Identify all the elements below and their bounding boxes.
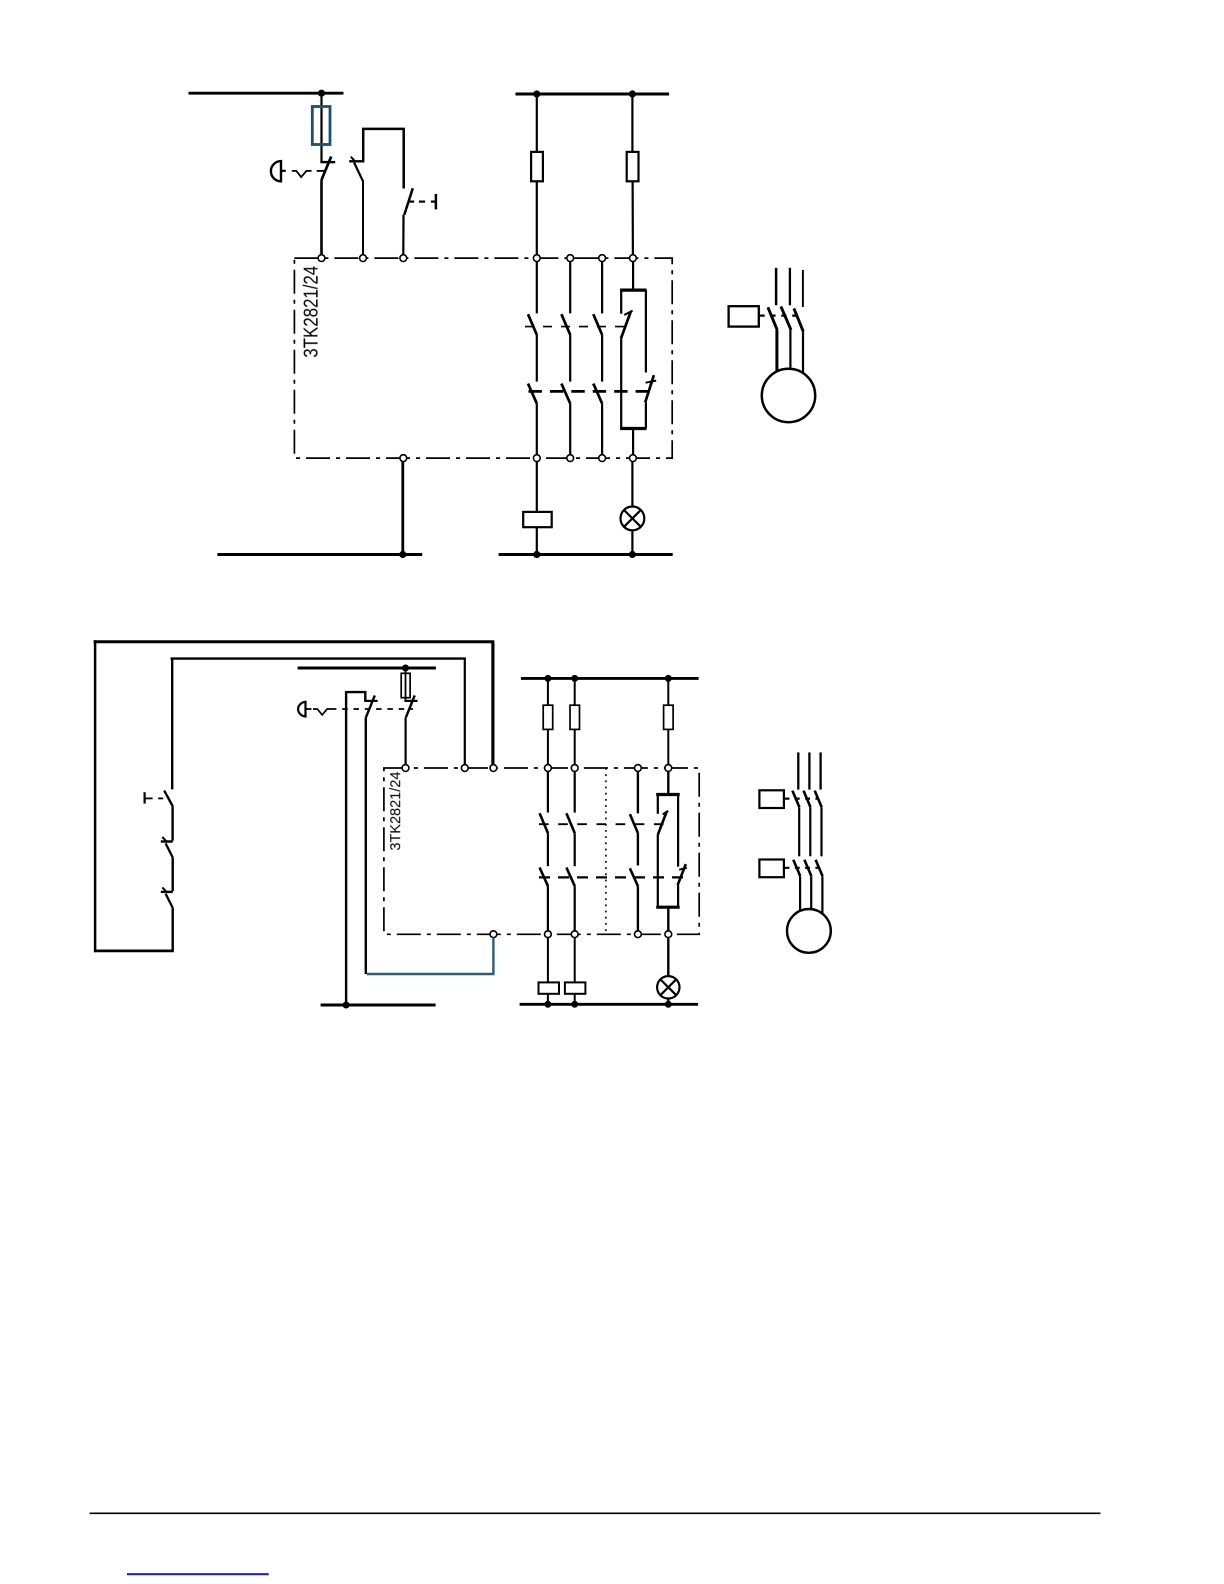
relay K2 lower tick: [679, 868, 687, 870]
switch S22 blade: [406, 695, 415, 717]
S3 actuator arm: [431, 201, 436, 203]
wire lamp H1 to rail: [631, 530, 633, 554]
contactor Q11 pole 2 blade: [804, 791, 811, 808]
outer loop wire top: [94, 640, 495, 643]
relay K2 upper tick: [663, 811, 669, 815]
inner loop wire right to terminal 23: [464, 659, 466, 765]
fuse F2: [531, 152, 543, 181]
contact 23-24-2 upper wire: [574, 771, 576, 812]
actuator latch squiggle: [292, 171, 312, 177]
DIAGRAM2: [94, 640, 831, 1008]
motor feeder 2 phase L3: [819, 752, 821, 789]
contactor Q1 linkage dashes: [760, 315, 798, 317]
chain switch S11 blade: [164, 791, 173, 807]
junction on rail at fuse F2: [533, 90, 540, 97]
S3 actuator dash crossing blade: [409, 201, 414, 203]
contact 13-14-2 mid wire: [547, 833, 549, 866]
ground rail right d2: [520, 1003, 699, 1006]
wire rail to fuse F14: [667, 678, 669, 705]
supply rail L+ (short): [298, 667, 436, 670]
lamp H1: [621, 507, 645, 531]
terminal 34-2: [635, 931, 642, 938]
terminal 13-2: [545, 765, 552, 772]
wire rail to fuse F3: [631, 94, 633, 152]
switch S12 blade: [166, 843, 173, 857]
outer loop wire bottom: [95, 950, 174, 953]
relay K bottom bar: [620, 427, 646, 430]
terminal 33: [599, 255, 606, 262]
S11 actuator dash: [158, 797, 163, 799]
junction Y3/N: [399, 551, 406, 558]
junction lamp H1 / rail: [629, 551, 636, 558]
inner loop wire top: [171, 657, 466, 659]
jumper wire over S2 to S3: [363, 129, 404, 189]
relay K left edge lower: [620, 338, 622, 428]
terminal 23: [567, 255, 574, 262]
contactor Q11 pole 3 blade: [815, 791, 822, 808]
contact 13-14-2 lower wire: [547, 886, 549, 931]
terminal Y3 top: [400, 255, 407, 262]
contact 13-14 upper wire: [536, 262, 538, 314]
relay K upper tick: [624, 311, 632, 315]
ground rail N (right): [499, 553, 673, 556]
fuse F14: [664, 705, 674, 729]
switch S13 tip tick: [162, 887, 166, 891]
relay K2 left edge upper: [657, 795, 659, 814]
contact 33-34 mid wire: [601, 335, 603, 382]
wire coil K2-2 to rail: [574, 994, 576, 1005]
relay K lower blade: [645, 375, 654, 402]
contact 33-34 blade: [593, 314, 602, 335]
wire Q1 pole2 to motor: [789, 330, 791, 369]
footer rule: [90, 1512, 1101, 1514]
supply rail top right d2: [521, 677, 699, 680]
relay K upper blade: [621, 312, 631, 339]
wire middle down-lead: [345, 691, 347, 1005]
relay K top bar: [620, 289, 646, 292]
motor feeder 2 phase L2: [808, 752, 810, 789]
contact 33-34-2 lower blade: [630, 868, 638, 886]
junction coil K2-2 / rail: [571, 1001, 578, 1008]
contactor Q11 linkage dashes: [785, 797, 819, 799]
motor feeder 2 phase L1: [797, 752, 799, 789]
lamp H2: [657, 976, 679, 998]
contactor coil K1: [523, 512, 552, 527]
DIAGRAM1: [189, 90, 816, 559]
wire Q12 pole1 to motor 2: [799, 876, 801, 911]
switch S2 tip tick: [351, 157, 355, 162]
contact 33-34-2 blade: [630, 814, 638, 833]
supply rail L (top right): [516, 93, 670, 96]
outer loop wire left: [94, 640, 97, 952]
terminal 34: [599, 455, 606, 462]
switch S12 tip tick: [162, 837, 166, 841]
wire Q1 pole1 to motor: [775, 330, 778, 372]
switch S13 blade: [166, 894, 173, 908]
wire Q1 pole3 to motor: [802, 332, 804, 373]
contact 33-34 upper wire: [601, 262, 603, 314]
relay K2 wire from A1-2: [667, 771, 669, 793]
junction coil K1-2 / rail: [544, 1001, 551, 1008]
jumper top bend: [346, 692, 365, 701]
motor feeder phase L1: [775, 268, 778, 306]
wire fuse F3 to terminal A1: [631, 181, 634, 255]
actuator 2 squiggle: [313, 709, 331, 715]
terminal 13: [533, 255, 540, 262]
contact 33-34-2 lower wire: [637, 886, 639, 931]
relay K2 right edge lower: [677, 885, 679, 906]
supply rail L1 (top left): [189, 92, 344, 95]
upper linkage dashed row 2: [539, 823, 664, 825]
contactor Q1 pole 3 blade: [794, 308, 803, 331]
S3 actuator bar: [435, 194, 438, 209]
wire 14 to coil K1: [536, 462, 538, 512]
motor M1: [762, 369, 815, 422]
3TK2821 device outline box 2: [384, 768, 699, 934]
contact 13-14 blade: [528, 314, 537, 335]
relay K left edge upper: [620, 290, 622, 314]
blue feedback wire: [367, 938, 494, 974]
junction rail / fuse F13: [571, 675, 578, 682]
wire inner loop to e-stop chain: [171, 659, 173, 790]
contact 33-34 lower blade: [593, 384, 602, 404]
lamp H2 cross stroke 1: [660, 979, 676, 995]
lamp H2 cross stroke 2: [660, 979, 676, 995]
fuse F13: [570, 705, 580, 729]
contactor coil K2-2: [565, 982, 586, 993]
contact 13-14-2 lower blade: [540, 868, 548, 887]
terminal A2: [630, 455, 637, 462]
terminal Y1: [318, 255, 325, 262]
contact 33-34-2 upper wire: [637, 771, 639, 813]
wire 24-2 to coil K2-2: [574, 938, 576, 983]
junction on rail at fuse F3: [629, 90, 636, 97]
wire rail through fuse F11: [405, 668, 407, 701]
terminal 23-2: [571, 765, 578, 772]
contact 13-14-2 upper wire: [547, 771, 549, 812]
contactor Q12 pole 2 blade: [804, 860, 811, 877]
ground rail N (left): [217, 553, 422, 556]
wire Q12 pole2 to motor 2: [810, 876, 812, 909]
terminal A1-2: [665, 765, 672, 772]
relay K wire from A1: [632, 262, 634, 290]
contact 23-24-2 mid wire: [574, 833, 576, 866]
wire coil K1-2 to rail: [547, 994, 549, 1005]
svg-text:3TK2821/24: 3TK2821/24: [388, 772, 404, 851]
contactor Q12 pole 3 blade: [816, 860, 823, 877]
start button S3 blade: [404, 188, 413, 215]
terminal Y32 bottom: [490, 931, 497, 938]
contact 23-24 mid wire: [569, 335, 571, 382]
contact 23-24 lower blade: [561, 384, 570, 404]
junction rail / fuse F11: [402, 665, 409, 672]
switch S1 fixed contact bar: [320, 161, 335, 163]
relay K right edge upper: [645, 290, 647, 372]
relay K2 left edge lower: [657, 835, 659, 906]
actuator tick: [281, 170, 286, 172]
wire fuse F2 to terminal 13: [536, 181, 538, 255]
wire rail to fuse F12: [547, 678, 549, 705]
contact 23-24 upper wire: [569, 262, 571, 314]
junction lamp H2 / rail: [665, 1001, 672, 1008]
wire fuse F14 to terminal A1-2: [667, 729, 669, 764]
contact 13-14 lower blade: [528, 384, 537, 404]
wire S1 to terminal 1: [320, 180, 323, 255]
contactor Q12 coil box: [759, 860, 784, 878]
wire S2 to terminal 2: [362, 182, 364, 255]
wire S22 to terminal Y12: [405, 717, 407, 764]
outer loop wire right to terminal 33: [491, 642, 494, 765]
contact 23-24-2 blade: [566, 813, 574, 833]
3TK2821 device outline box: [294, 258, 672, 458]
actuator 2 tick: [306, 708, 312, 710]
motor feeder phase L2: [789, 268, 791, 306]
switch S13 fixed bar: [161, 891, 173, 893]
switch S12 fixed bar: [161, 840, 173, 842]
wire S11 to S12: [171, 806, 173, 840]
motor M2: [787, 909, 831, 953]
junction rail / fuse F12: [544, 675, 551, 682]
fuse F1 (blue): [312, 107, 330, 145]
wire fuse F13 to terminal: [574, 729, 576, 764]
terminal 14-2: [545, 931, 552, 938]
switch S21 blade: [366, 695, 375, 717]
terminal A2-2: [665, 931, 672, 938]
wire Q12 pole3 to motor 2: [821, 876, 823, 913]
terminal Y3 bottom: [400, 455, 407, 462]
svg-text:3TK2821/24: 3TK2821/24: [299, 266, 322, 358]
relay K2 wire to A2-2: [667, 907, 669, 931]
S11 actuator arm: [145, 797, 153, 799]
relay K wire to A2: [632, 429, 634, 455]
contact 23-24-2 lower blade: [566, 868, 574, 887]
contact 23-24 lower wire: [569, 404, 571, 455]
switch S2 blade: [354, 163, 363, 182]
terminal Y2: [360, 255, 367, 262]
wire S12 to S13: [171, 858, 173, 891]
switch S22 fixed bar: [404, 700, 417, 702]
terminal 33-2: [635, 765, 642, 772]
terminal Y12: [402, 765, 409, 772]
contactor Q11 pole 1 blade: [792, 791, 799, 808]
fuse F11: [401, 673, 410, 697]
contact 33-34-2 mid wire: [637, 833, 639, 865]
terminal A1: [630, 255, 637, 262]
terminal 14: [533, 455, 540, 462]
wire rail to fuse F2: [536, 94, 538, 152]
relay K2 top bar: [656, 793, 680, 796]
contact 23-24-2 lower wire: [574, 886, 576, 931]
motor feeder phase L3: [802, 270, 804, 307]
wire A2 to lamp H1: [631, 462, 633, 507]
contactor Q1 pole 2 blade: [781, 306, 791, 330]
lamp H1 cross stroke 2: [624, 510, 641, 527]
footer link underline: [127, 1573, 269, 1575]
contact 23-24 blade: [561, 314, 570, 335]
contactor Q1 coil box: [729, 306, 759, 326]
wire Q11 pole3 to Q12: [820, 807, 822, 856]
relay K2 right edge upper: [677, 795, 679, 867]
terminal 24: [567, 455, 574, 462]
emergency stop actuator head: [271, 161, 281, 181]
contact 13-14-2 blade: [540, 813, 548, 833]
wire from rail through fuse F1: [320, 93, 322, 162]
upper linkage dashed row: [525, 326, 624, 328]
relay K lower tick: [646, 381, 657, 383]
relay K2 bottom bar: [656, 906, 680, 909]
contactor coil K1-2: [539, 982, 560, 993]
switch S1 blade: [321, 157, 331, 181]
ground rail left d2: [321, 1004, 436, 1007]
wire S3 to terminal 3: [402, 215, 404, 255]
channel separator dotted line: [605, 768, 607, 934]
terminal 24-2: [571, 931, 578, 938]
relay K2 lower blade: [678, 864, 686, 885]
switch S2 fixed contact bar: [349, 160, 364, 162]
terminal Y32: [490, 765, 497, 772]
lamp H1 cross stroke 1: [624, 510, 641, 527]
lower linkage dashed row 2: [539, 876, 683, 878]
contactor Q1 pole 1 blade: [768, 307, 777, 330]
wire lamp H2 to rail: [667, 999, 669, 1005]
contactor Q12 linkage dashes: [785, 867, 820, 869]
wire S21 down to blue link: [365, 717, 367, 974]
terminal Y22: [461, 765, 468, 772]
junction on rail L1: [318, 90, 325, 97]
relay K right edge lower: [645, 402, 647, 428]
fuse F12: [543, 705, 553, 729]
wire fuse F12 to terminal: [547, 729, 549, 764]
wire Q11 pole1 to Q12: [798, 807, 800, 856]
wire coil K1 to rail: [536, 527, 538, 554]
fuse F3: [627, 152, 639, 181]
wire Q11 pole2 to Q12: [809, 807, 811, 856]
actuator dashed link to S1: [317, 170, 325, 172]
switch S21 fixed bar: [364, 700, 377, 702]
FOOTER: [90, 1513, 1101, 1574]
junction coil K1 / rail: [533, 551, 540, 558]
contact 13-14 mid wire: [536, 335, 538, 382]
contact 13-14 lower wire: [536, 404, 538, 455]
contactor Q11 coil box: [759, 790, 784, 808]
relay K2 upper blade: [658, 811, 667, 835]
S11 actuator bar: [144, 792, 146, 803]
wire 14-2 to coil K1-2: [547, 938, 549, 983]
contact 33-34 lower wire: [601, 404, 603, 455]
contactor Q12 pole 1 blade: [793, 860, 800, 877]
actuator 2 dashed link: [331, 708, 413, 710]
emergency stop actuator head 2: [298, 702, 305, 717]
wire A2-2 to lamp H2: [667, 938, 669, 977]
wire S13 to outer loop bottom: [171, 908, 173, 951]
junction down-lead / rail: [343, 1002, 350, 1009]
junction rail / fuse F14: [665, 675, 672, 682]
wire rail to fuse F13: [574, 678, 576, 705]
lower linkage dashed row: [529, 390, 650, 393]
S3 actuator dash: [419, 201, 425, 203]
wire Y3 to ground rail: [401, 462, 404, 555]
